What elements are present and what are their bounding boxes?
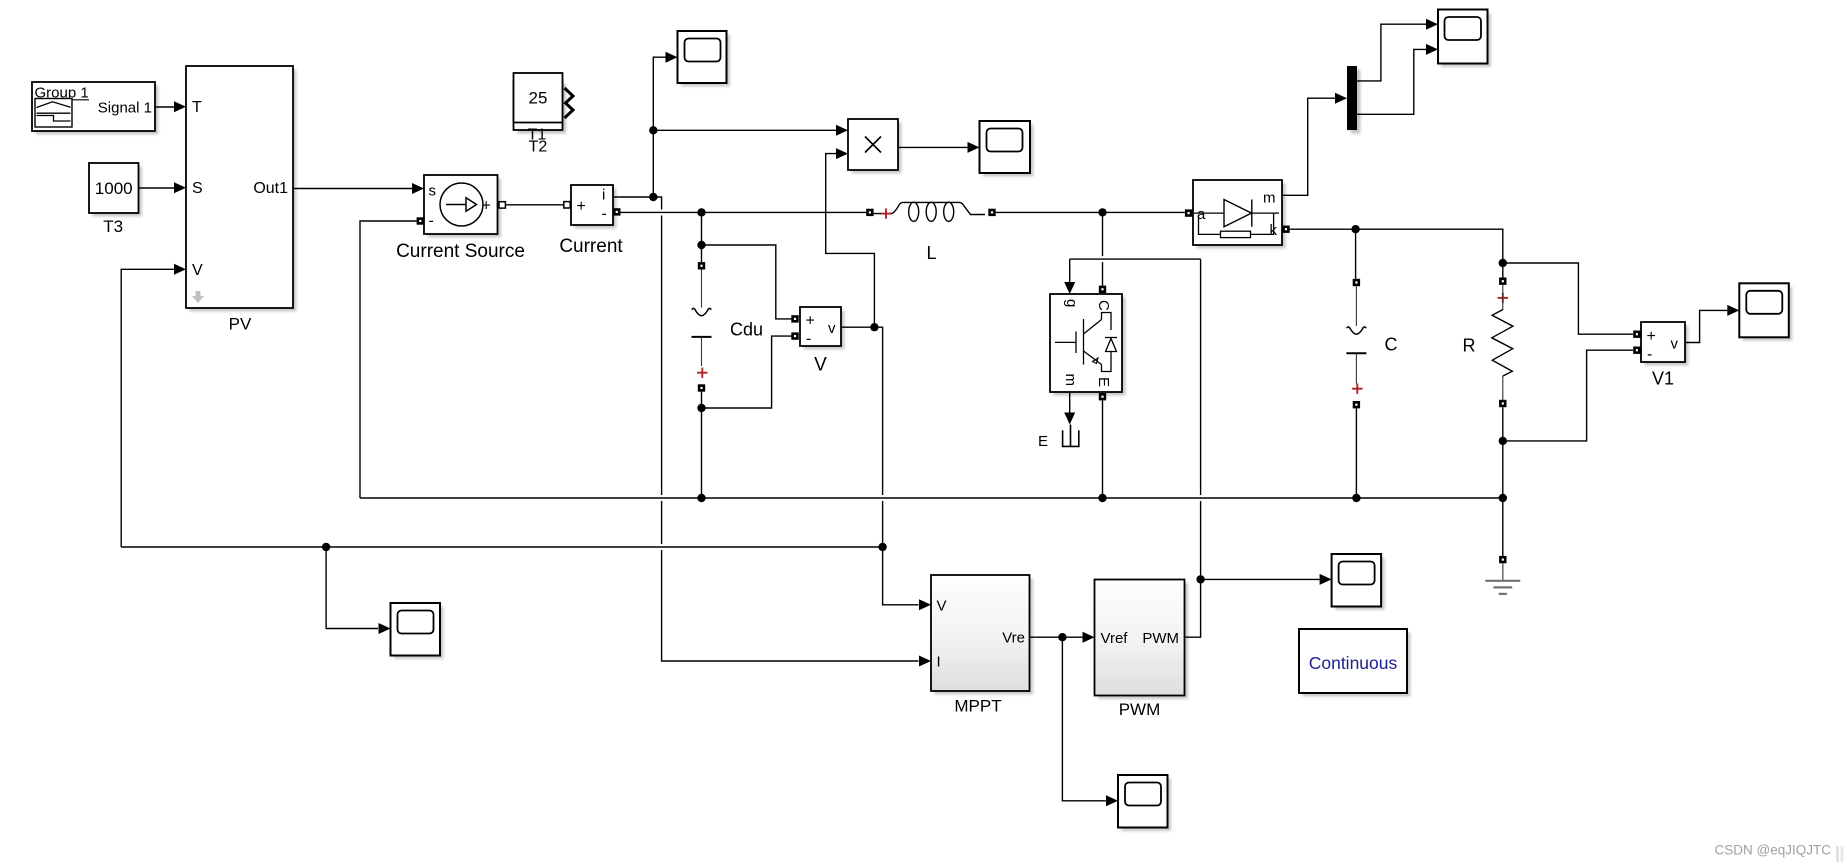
capacitor Cdu [692,245,764,408]
node Vre junction [1058,633,1066,641]
svg-text:v: v [828,320,836,337]
wire bus down to Cdu top node [701,212,703,245]
main bus wire left segment [621,211,867,213]
svg-text:I: I [937,654,941,671]
svg-text:+: + [482,198,491,215]
wire B up to scope1 [653,52,677,131]
scope6 [391,603,444,659]
wire IGBT m to ground E [1064,392,1075,425]
svg-text:C: C [1385,335,1398,355]
node Cdu top junction [697,241,705,249]
wire T3 to PV.S [139,182,187,193]
wire IGBT E to rail [1102,400,1104,498]
V1 minus port [1633,347,1640,354]
resistor R [1463,263,1513,441]
node R bottom junction [1499,437,1507,445]
svg-text:+: + [577,198,586,215]
wire V node down to MPPT V (with hops) [874,327,931,610]
svg-text:25: 25 [529,89,548,108]
diode k port [1282,226,1289,233]
ground port [1499,556,1506,563]
svg-text:MPPT: MPPT [954,697,1001,716]
scope5 [1332,554,1385,610]
node Cdu bottom junction [697,404,705,412]
wire A up to node B [652,130,654,197]
scope3 [1438,10,1491,68]
svg-text:T1: T1 [528,127,547,144]
IGBT C port [1099,286,1106,293]
V meas plus port [791,315,798,322]
MPPT block [931,575,1033,716]
svg-text:R: R [1463,336,1476,356]
V meas minus port [791,332,798,339]
svg-text:m: m [1062,374,1079,387]
node PWM-scope5 junction [1196,575,1204,583]
voltage measurement V [800,307,845,376]
inductor left port [866,209,873,216]
svg-text:+: + [806,313,815,330]
current meas minus port [613,208,620,215]
scope2 [980,121,1034,177]
svg-text:V1: V1 [1652,369,1674,389]
svg-text:Continuous: Continuous [1309,653,1398,673]
wire diode m to demux [1282,93,1347,196]
current measurement block [559,185,623,257]
wire diode k rail [1290,229,1503,263]
capacitor C [1346,229,1397,498]
signal builder block Group 1 / Signal 1 [32,82,159,135]
product block [848,119,902,174]
wire rail to ground port [1502,498,1504,556]
svg-text:Current: Current [559,236,623,257]
svg-text:1000: 1000 [95,179,133,198]
svg-text:-: - [602,206,607,223]
current source minus port [417,217,424,224]
diode a port [1185,209,1192,216]
svg-text:-: - [806,331,811,348]
PWM block [1095,580,1189,720]
wire demux out1 to scope3 [1357,19,1438,81]
IGBT block [1050,294,1126,396]
current meas plus port [564,202,570,208]
svg-text:S: S [192,180,203,197]
inductor L coil [874,202,985,263]
bottom rail wire [360,497,1503,499]
wire Signal1 to PV.T [155,101,186,112]
wire Vre to scope7 [1062,637,1118,806]
wire A down to MPPT I (with jog and hops) [653,197,931,667]
node bus-IGBT junction [1098,208,1106,216]
svg-text:PWM: PWM [1142,630,1179,647]
constant T1 (behind) [514,81,574,156]
V1 plus port [1633,331,1640,338]
svg-text:+: + [1647,328,1656,345]
svg-text:V: V [937,598,947,615]
svg-text:C: C [1095,300,1112,311]
svg-text:s: s [429,183,437,200]
node B junction [649,126,657,134]
svg-text:PWM: PWM [1119,700,1161,719]
wire V feedback horizontal y=547 [121,546,882,548]
inductor polarity plus [881,208,891,218]
svg-text:m: m [1263,190,1276,207]
svg-text:v: v [1671,336,1679,353]
svg-text:i: i [602,187,605,204]
current source block [396,175,525,262]
svg-text:Current Source: Current Source [396,241,525,262]
voltage measurement V1 [1641,322,1689,389]
svg-text:CSDN @eqJIQJTC: CSDN @eqJIQJTC [1715,843,1832,858]
current source plus port [499,202,505,208]
wire demux out2 to scope3 [1357,44,1438,114]
node R top junction [1499,259,1507,267]
IGBT E port [1099,393,1106,400]
demux [1347,66,1361,134]
wire MPPT Vre to PWM Vref [1030,632,1095,643]
watermark [1715,843,1844,863]
wire junction to scope5 [1201,574,1332,585]
node rail-Cdu junction [697,494,705,502]
wire V1 to scope4 [1685,305,1739,343]
node k-C junction [1351,225,1359,233]
inductor right port [988,209,995,216]
wire gate from PWM vertical to IGBT g [1064,259,1200,294]
wire i output to node A [613,196,653,198]
junction at scope6 branch [322,543,330,551]
node bus-Cdu junction [697,208,705,216]
wire product to scope2 [898,142,980,153]
constant T3 (1000) [89,163,142,236]
wire branch to scope6 [326,547,390,634]
wire Cdu top to V plus [702,245,792,319]
svg-text:T: T [192,99,202,116]
svg-text:T3: T3 [103,217,123,236]
wire CS plus to Current plus [505,204,563,206]
wire Cdu bottom to V minus [702,336,792,408]
ground symbol [1485,563,1520,594]
node rail-IGBT junction [1098,494,1106,502]
scope4 [1739,283,1792,341]
svg-text:-: - [1647,346,1652,363]
wire V output to node [841,326,874,328]
svg-text:Vre: Vre [1002,630,1025,647]
wire PWM output up to gate (with hop) [1185,259,1201,637]
scope7 [1118,775,1171,831]
product input2 arrow [836,148,848,159]
svg-text:V: V [814,355,827,376]
powergui Continuous block [1299,629,1411,697]
svg-text:L: L [926,243,936,263]
scope1 [678,31,731,87]
wire CS minus to bottom rail [360,221,417,498]
svg-text:E: E [1095,377,1112,387]
node rail-C junction [1352,494,1360,502]
ground block E [1038,425,1079,451]
node V output junction [870,323,878,331]
diode block [1193,180,1286,249]
wire Cdu bottom to rail [701,408,703,498]
wire PV.V feedback (left vertical) [121,264,186,547]
svg-text:Signal 1: Signal 1 [98,100,152,117]
svg-text:Out1: Out1 [253,180,288,197]
constant T2 (front, 25) [514,73,574,144]
svg-text:Vref: Vref [1101,630,1129,647]
svg-text:E: E [1038,433,1048,450]
main bus wire right segment [996,211,1185,213]
svg-text:g: g [1063,299,1080,307]
wire PV.Out1 to Current Source s [293,183,424,194]
wire V node up to product input2 [826,154,875,328]
PV subsystem block [186,66,297,334]
wire R bottom to rail [1502,441,1504,498]
wire R top to V1 plus [1503,263,1633,334]
wire B to product input1 [653,125,848,136]
node feedback junction at x882 [878,543,886,551]
svg-text:V: V [192,262,203,279]
wire R bottom to V1 minus [1503,350,1633,441]
node A junction [649,193,657,201]
wire IGBT C to bus [1102,212,1104,285]
svg-text:-: - [429,213,434,230]
svg-text:Cdu: Cdu [730,320,763,340]
svg-text:PV: PV [229,315,252,334]
node rail-ground junction [1499,494,1507,502]
